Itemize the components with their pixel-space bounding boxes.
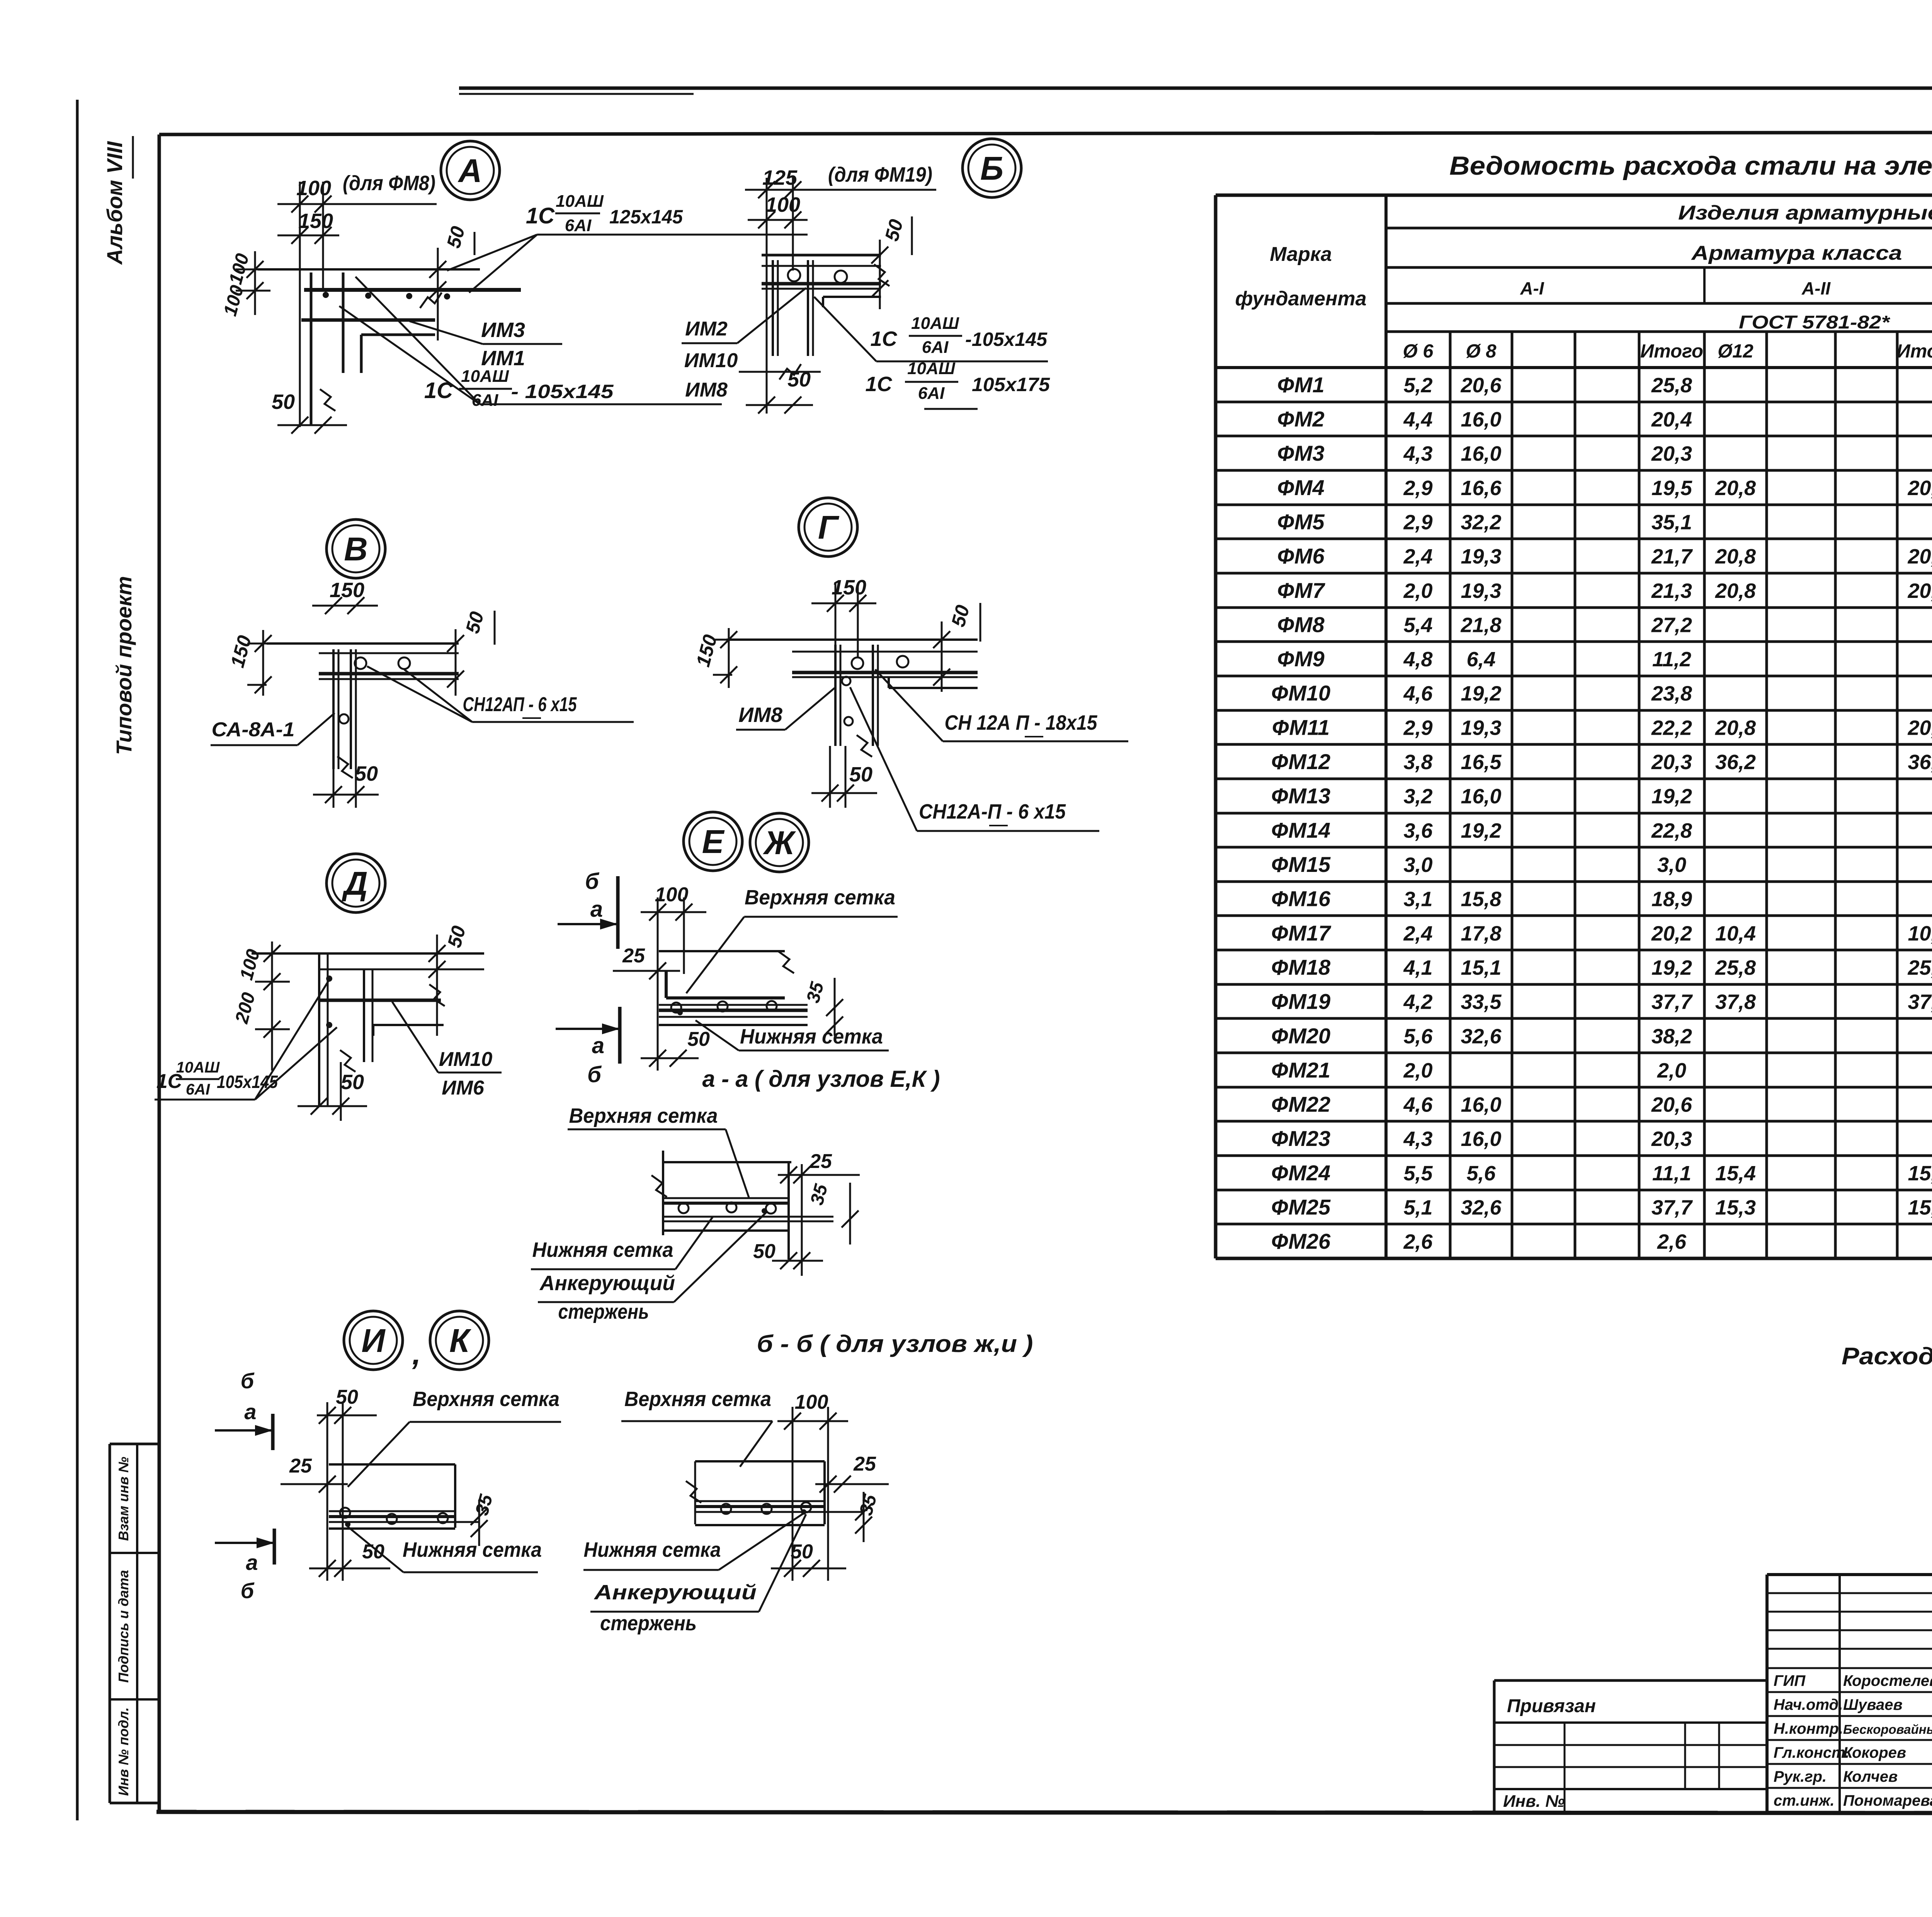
svg-text:32,2: 32,2 <box>1461 511 1501 534</box>
sheet outer top line <box>459 87 1932 90</box>
svg-text:25,8: 25,8 <box>1651 374 1692 397</box>
svg-text:15,3: 15,3 <box>1715 1196 1756 1219</box>
svg-text:ФМ20: ФМ20 <box>1271 1023 1330 1048</box>
svg-text:ИМ8: ИМ8 <box>685 379 728 401</box>
detail marker D <box>327 854 385 913</box>
svg-text:10,4: 10,4 <box>1908 922 1932 945</box>
detail markers I and K <box>344 1311 403 1370</box>
svg-text:ГОСТ 5781-82*: ГОСТ 5781-82* <box>1739 312 1891 333</box>
detail D wall lines <box>318 953 320 1106</box>
svg-text:ИМ10: ИМ10 <box>439 1048 493 1071</box>
detail G wall lines <box>834 645 837 746</box>
svg-text:5,6: 5,6 <box>1466 1162 1496 1185</box>
sheet outer left edge line <box>76 100 79 1820</box>
svg-text:ФМ18: ФМ18 <box>1271 955 1331 979</box>
svg-text:100: 100 <box>765 193 800 216</box>
svg-text:а: а <box>590 897 603 922</box>
svg-text:Марка: Марка <box>1270 243 1332 266</box>
svg-text:4,8: 4,8 <box>1403 648 1432 671</box>
svg-text:10АШ: 10АШ <box>911 314 959 333</box>
svg-text:19,3: 19,3 <box>1461 716 1501 739</box>
svg-text:20,8: 20,8 <box>1715 477 1756 500</box>
svg-text:4,6: 4,6 <box>1403 682 1433 705</box>
svg-text:Верхняя сетка: Верхняя сетка <box>569 1104 718 1127</box>
svg-text:20,2: 20,2 <box>1651 922 1692 945</box>
svg-text:18,9: 18,9 <box>1651 888 1692 911</box>
detail B extension lines <box>766 178 768 414</box>
svg-text:Ж: Ж <box>763 825 796 861</box>
detail A right dim 50 <box>437 248 439 340</box>
svg-text:Арматура класса: Арматура класса <box>1690 242 1902 264</box>
svg-text:ФМ9: ФМ9 <box>1277 647 1324 671</box>
svg-text:50: 50 <box>687 1028 710 1050</box>
svg-text:10АШ: 10АШ <box>176 1059 220 1076</box>
svg-text:Взам инв №: Взам инв № <box>116 1457 131 1541</box>
svg-text:ФМ1: ФМ1 <box>1277 373 1324 397</box>
svg-text:4,4: 4,4 <box>1403 408 1432 431</box>
svg-text:И: И <box>361 1323 386 1359</box>
svg-text:ФМ25: ФМ25 <box>1271 1195 1331 1219</box>
svg-text:25: 25 <box>853 1453 876 1475</box>
svg-text:32,6: 32,6 <box>1461 1196 1502 1219</box>
svg-text:4,2: 4,2 <box>1403 991 1432 1014</box>
svg-text:ФМ15: ФМ15 <box>1271 852 1331 877</box>
detail V slab lines <box>267 642 459 645</box>
svg-text:20,4: 20,4 <box>1651 408 1692 431</box>
svg-text:10,4: 10,4 <box>1715 922 1756 945</box>
drawing frame border <box>158 134 161 1812</box>
section b-b2 slab <box>695 1460 825 1462</box>
svg-text:6АI: 6АI <box>922 338 949 357</box>
svg-text:ИМ1: ИМ1 <box>481 347 525 370</box>
detail A wall lines <box>310 272 313 425</box>
svg-text:Нижняя сетка: Нижняя сетка <box>403 1538 542 1561</box>
detail A slab lines <box>258 268 480 271</box>
svg-text:16,5: 16,5 <box>1461 751 1502 774</box>
svg-text:3,1: 3,1 <box>1403 888 1432 911</box>
svg-text:фундамента: фундамента <box>1235 288 1367 310</box>
svg-text:37,8: 37,8 <box>1715 991 1756 1014</box>
svg-text:Изделия арматурные: Изделия арматурные <box>1678 202 1932 224</box>
steel consumption table grid <box>1216 194 1932 197</box>
svg-text:20,6: 20,6 <box>1651 1093 1692 1117</box>
svg-text:20,3: 20,3 <box>1651 751 1692 774</box>
svg-text:СА-8А-1: СА-8А-1 <box>212 718 295 741</box>
svg-text:15,3: 15,3 <box>1908 1196 1932 1219</box>
svg-text:1С: 1С <box>870 327 897 351</box>
svg-text:50: 50 <box>362 1541 384 1563</box>
left stamp column boxes <box>109 1444 111 1803</box>
detail G slab lines <box>726 638 978 641</box>
svg-text:37,8: 37,8 <box>1908 991 1932 1014</box>
svg-text:Нижняя сетка: Нижняя сетка <box>532 1238 673 1262</box>
svg-text:21,3: 21,3 <box>1651 579 1692 603</box>
svg-text:ФМ7: ФМ7 <box>1277 578 1325 603</box>
detail D right dim 50 <box>436 935 438 1036</box>
svg-text:ИМ3: ИМ3 <box>481 318 525 342</box>
svg-text:3,0: 3,0 <box>1403 853 1432 877</box>
svg-text:ФМ16: ФМ16 <box>1271 887 1331 911</box>
svg-text:3,2: 3,2 <box>1403 785 1432 808</box>
svg-text:СН 12А П - 18х15: СН 12А П - 18х15 <box>945 711 1098 734</box>
svg-text:1С: 1С <box>865 373 892 396</box>
detail B slab lines <box>762 254 881 257</box>
svg-text:19,2: 19,2 <box>1461 819 1501 842</box>
svg-text:ФМ10: ФМ10 <box>1271 681 1330 705</box>
svg-text:105х145: 105х145 <box>217 1072 278 1092</box>
svg-text:19,5: 19,5 <box>1651 477 1692 500</box>
svg-text:16,0: 16,0 <box>1461 1127 1501 1151</box>
svg-text:ФМ14: ФМ14 <box>1271 818 1330 842</box>
svg-text:5,1: 5,1 <box>1403 1196 1432 1219</box>
svg-text:20,8: 20,8 <box>1907 579 1932 603</box>
detail marker V <box>327 519 385 578</box>
svg-text:37,7: 37,7 <box>1651 991 1693 1014</box>
svg-text:20,8: 20,8 <box>1907 477 1932 500</box>
detail V wall lines <box>332 649 335 769</box>
svg-text:А: А <box>457 153 482 189</box>
svg-text:27,2: 27,2 <box>1651 613 1692 637</box>
svg-text:5,4: 5,4 <box>1403 613 1432 637</box>
svg-text:Нижняя сетка: Нижняя сетка <box>740 1025 883 1048</box>
svg-text:Кокорев: Кокорев <box>1843 1744 1906 1761</box>
svg-text:Колчев: Колчев <box>1843 1768 1898 1785</box>
svg-text:2,6: 2,6 <box>1657 1230 1687 1253</box>
svg-text:(для ФМ8): (для ФМ8) <box>343 172 435 195</box>
detail B step <box>823 296 881 298</box>
svg-text:(для ФМ19): (для ФМ19) <box>828 163 932 186</box>
svg-text:1С: 1С <box>526 203 555 228</box>
svg-text:ФМ2: ФМ2 <box>1277 407 1324 431</box>
svg-text:10АШ: 10АШ <box>907 359 956 378</box>
svg-text:б: б <box>241 1578 255 1603</box>
svg-text:2,6: 2,6 <box>1403 1230 1433 1253</box>
svg-text:23,8: 23,8 <box>1651 682 1692 705</box>
svg-text:Рук.гр.: Рук.гр. <box>1774 1768 1827 1785</box>
svg-text:2,9: 2,9 <box>1403 716 1432 739</box>
svg-text:21,7: 21,7 <box>1651 545 1693 568</box>
svg-text:16,0: 16,0 <box>1461 785 1501 808</box>
svg-text:36,2: 36,2 <box>1908 751 1932 774</box>
svg-text:Гл.конст.: Гл.конст. <box>1774 1744 1849 1761</box>
svg-text:20,3: 20,3 <box>1651 1127 1692 1151</box>
svg-text:2,0: 2,0 <box>1403 1059 1432 1082</box>
svg-text:Ø 6: Ø 6 <box>1403 341 1434 362</box>
svg-text:2,4: 2,4 <box>1403 922 1432 945</box>
svg-text:50: 50 <box>341 1071 364 1094</box>
svg-text:2,0: 2,0 <box>1403 579 1432 603</box>
svg-text:19,2: 19,2 <box>1651 956 1692 979</box>
svg-text:20,8: 20,8 <box>1715 716 1756 739</box>
svg-text:21,8: 21,8 <box>1460 613 1501 637</box>
svg-text:125х145: 125х145 <box>609 206 683 228</box>
svg-text:2,9: 2,9 <box>1403 511 1432 534</box>
svg-text:стержень: стержень <box>600 1612 697 1635</box>
svg-text:б: б <box>585 869 600 894</box>
svg-text:11,1: 11,1 <box>1652 1162 1691 1185</box>
svg-text:33,5: 33,5 <box>1461 991 1502 1014</box>
section a-a slab <box>659 950 785 952</box>
detail marker Zh <box>750 813 809 872</box>
svg-text:Нач.отд.: Нач.отд. <box>1774 1696 1843 1713</box>
svg-text:3,6: 3,6 <box>1403 819 1433 842</box>
svg-text:Е: Е <box>702 824 725 860</box>
svg-text:ИМ10: ИМ10 <box>684 349 738 372</box>
section b-b slab <box>662 1151 664 1235</box>
svg-text:Шуваев: Шуваев <box>1843 1696 1903 1713</box>
svg-text:Привязан: Привязан <box>1507 1696 1596 1716</box>
svg-text:ФМ13: ФМ13 <box>1271 784 1330 808</box>
detail A extension lines <box>299 182 301 427</box>
svg-text:20,8: 20,8 <box>1907 545 1932 568</box>
svg-text:25: 25 <box>289 1455 312 1477</box>
svg-text:ФМ24: ФМ24 <box>1271 1161 1330 1185</box>
svg-text:19,3: 19,3 <box>1461 545 1501 568</box>
svg-text:4,3: 4,3 <box>1403 1127 1432 1151</box>
svg-text:СН12А-П - 6 х15: СН12А-П - 6 х15 <box>919 800 1066 823</box>
svg-text:6АI: 6АI <box>565 216 592 235</box>
svg-text:б: б <box>587 1062 602 1087</box>
svg-text:20,8: 20,8 <box>1715 579 1756 603</box>
svg-text:36,2: 36,2 <box>1715 751 1756 774</box>
svg-text:5,6: 5,6 <box>1403 1025 1433 1048</box>
svg-text:ст.инж.: ст.инж. <box>1774 1792 1835 1809</box>
svg-text:50: 50 <box>849 763 872 786</box>
svg-text:16,6: 16,6 <box>1461 477 1502 500</box>
svg-text:Инв № подл.: Инв № подл. <box>116 1707 131 1796</box>
svg-text:СН12АП - 6 х15: СН12АП - 6 х15 <box>463 693 577 716</box>
svg-text:25: 25 <box>809 1150 832 1173</box>
detail marker G <box>799 498 857 557</box>
detail marker E <box>684 812 742 871</box>
detail A step lines <box>361 334 435 336</box>
svg-text:2,0: 2,0 <box>1657 1059 1686 1082</box>
svg-text:100: 100 <box>795 1391 828 1413</box>
svg-text:Анкерующий: Анкерующий <box>594 1581 757 1604</box>
svg-text:20,8: 20,8 <box>1715 545 1756 568</box>
detail V right dim 50 <box>455 629 457 696</box>
svg-text:- 105х145: - 105х145 <box>511 381 614 402</box>
svg-text:100: 100 <box>296 177 331 200</box>
svg-text:5,5: 5,5 <box>1403 1162 1433 1185</box>
svg-text:25,8: 25,8 <box>1715 956 1756 979</box>
svg-text:ФМ17: ФМ17 <box>1271 921 1332 945</box>
svg-text:16,0: 16,0 <box>1461 1093 1501 1117</box>
svg-text:4,6: 4,6 <box>1403 1093 1433 1117</box>
privyazan table <box>1494 1679 1767 1682</box>
svg-text:Г: Г <box>818 509 840 546</box>
svg-text:а: а <box>592 1033 604 1058</box>
svg-text:50: 50 <box>787 368 811 391</box>
svg-text:Верхняя сетка: Верхняя сетка <box>624 1388 771 1411</box>
detail marker B <box>963 139 1021 197</box>
svg-text:10АШ: 10АШ <box>556 192 604 211</box>
svg-text:ИМ8: ИМ8 <box>738 703 782 727</box>
svg-text:Ведомость расхода стали: Ведомость расхода стали на элемент , кг <box>1449 151 1932 180</box>
svg-text:25: 25 <box>622 945 645 967</box>
svg-text:50: 50 <box>355 762 378 785</box>
svg-text:К: К <box>449 1323 472 1359</box>
svg-text:105х175: 105х175 <box>972 374 1050 395</box>
svg-text:15,4: 15,4 <box>1908 1162 1932 1185</box>
svg-text:4,3: 4,3 <box>1403 442 1432 465</box>
svg-text:38,2: 38,2 <box>1651 1025 1692 1048</box>
svg-text:ФМ6: ФМ6 <box>1277 544 1325 568</box>
svg-text:Анкерующий: Анкерующий <box>539 1272 675 1295</box>
svg-text:16,0: 16,0 <box>1461 408 1501 431</box>
svg-text:Расход Ø 6АI на анкерующ: Расход Ø 6АI на анкерующие стержни - 192… <box>1842 1343 1932 1370</box>
svg-text:Коростелев: Коростелев <box>1843 1672 1932 1689</box>
svg-text:В: В <box>344 531 367 568</box>
svg-text:а: а <box>246 1550 258 1575</box>
svg-text:50: 50 <box>791 1541 813 1563</box>
svg-text:6,4: 6,4 <box>1466 648 1495 671</box>
detail D step <box>373 1024 444 1026</box>
detail D mesh line <box>319 999 441 1002</box>
svg-text:20,8: 20,8 <box>1907 716 1932 739</box>
svg-text:16,0: 16,0 <box>1461 442 1501 465</box>
svg-text:Ø12: Ø12 <box>1718 341 1753 362</box>
svg-text:ФМ19: ФМ19 <box>1271 989 1330 1014</box>
svg-text:22,8: 22,8 <box>1651 819 1692 842</box>
svg-text:А-II: А-II <box>1801 278 1831 298</box>
svg-text:5,2: 5,2 <box>1403 374 1432 397</box>
svg-text:3,0: 3,0 <box>1657 853 1686 877</box>
svg-text:6АI: 6АI <box>918 384 945 403</box>
svg-text:35,1: 35,1 <box>1651 511 1692 534</box>
svg-text:а: а <box>244 1399 256 1424</box>
detail D slab lines <box>252 952 484 955</box>
svg-text:ФМ26: ФМ26 <box>1271 1229 1331 1253</box>
svg-text:4,1: 4,1 <box>1403 956 1432 979</box>
svg-text:ФМ22: ФМ22 <box>1271 1092 1330 1117</box>
svg-text:Пономарева: Пономарева <box>1843 1792 1932 1809</box>
svg-text:25,8: 25,8 <box>1907 956 1932 979</box>
svg-text:22,2: 22,2 <box>1651 716 1692 739</box>
svg-text:Инв. №: Инв. № <box>1503 1792 1565 1811</box>
svg-text:а - а ( для узлов Е,К ): а - а ( для узлов Е,К ) <box>702 1066 940 1092</box>
svg-text:19,3: 19,3 <box>1461 579 1501 603</box>
svg-text:Верхняя сетка: Верхняя сетка <box>745 886 895 909</box>
svg-text:32,6: 32,6 <box>1461 1025 1502 1048</box>
svg-text:2,9: 2,9 <box>1403 477 1432 500</box>
svg-text:Б: Б <box>980 150 1003 187</box>
svg-text:15,1: 15,1 <box>1461 956 1501 979</box>
svg-text:-105х145: -105х145 <box>965 329 1048 350</box>
svg-text:50: 50 <box>272 390 295 414</box>
svg-text:11,2: 11,2 <box>1652 648 1691 671</box>
svg-text:ФМ12: ФМ12 <box>1271 749 1330 774</box>
svg-text:150: 150 <box>330 579 364 602</box>
svg-text:19,2: 19,2 <box>1461 682 1501 705</box>
svg-text:б - б ( для узлов ж,и ): б - б ( для узлов ж,и ) <box>757 1331 1033 1357</box>
svg-text:2,4: 2,4 <box>1403 545 1432 568</box>
detail A lower mesh line <box>301 318 435 322</box>
svg-text:Типовой проект: Типовой проект <box>112 576 136 755</box>
title block signature table <box>1767 1573 1932 1576</box>
svg-text:17,8: 17,8 <box>1461 922 1501 945</box>
svg-text:20,3: 20,3 <box>1651 442 1692 465</box>
svg-text:А-I: А-I <box>1520 278 1544 298</box>
svg-text:ФМ23: ФМ23 <box>1271 1126 1330 1151</box>
svg-text:Альбом VIII: Альбом VIII <box>102 141 127 265</box>
svg-text:Итого: Итого <box>1640 341 1703 362</box>
svg-text:ФМ4: ФМ4 <box>1277 475 1324 500</box>
svg-text:ФМ3: ФМ3 <box>1277 441 1324 465</box>
svg-text:37,7: 37,7 <box>1651 1196 1693 1219</box>
svg-text:150: 150 <box>832 576 866 599</box>
svg-text:Д: Д <box>341 865 367 902</box>
svg-text:стержень: стержень <box>558 1300 649 1323</box>
svg-text:15,8: 15,8 <box>1461 888 1501 911</box>
detail B right dim 50 <box>879 240 881 309</box>
svg-text:10АШ: 10АШ <box>461 367 509 386</box>
detail G right dim 50 <box>941 621 943 692</box>
svg-text:ГИП: ГИП <box>1774 1672 1806 1689</box>
svg-text:ФМ5: ФМ5 <box>1277 509 1325 534</box>
detail G step <box>889 687 978 689</box>
svg-text:20,6: 20,6 <box>1460 374 1502 397</box>
svg-text:ФМ11: ФМ11 <box>1272 715 1330 739</box>
svg-text:19,2: 19,2 <box>1651 785 1692 808</box>
svg-text:,: , <box>412 1336 421 1371</box>
svg-text:50: 50 <box>753 1240 776 1263</box>
svg-text:50: 50 <box>336 1386 358 1408</box>
svg-text:ФМ21: ФМ21 <box>1271 1058 1330 1082</box>
svg-text:3,8: 3,8 <box>1403 751 1432 774</box>
svg-text:ИМ2: ИМ2 <box>685 318 728 340</box>
svg-text:Бескоровайный: Бескоровайный <box>1843 1722 1932 1737</box>
svg-text:Ø 8: Ø 8 <box>1466 341 1497 362</box>
svg-text:Итого: Итого <box>1897 341 1932 362</box>
svg-text:Верхняя сетка: Верхняя сетка <box>413 1388 560 1411</box>
svg-text:ФМ8: ФМ8 <box>1277 612 1325 637</box>
svg-text:ИМ6: ИМ6 <box>442 1077 485 1099</box>
svg-text:15,4: 15,4 <box>1715 1162 1756 1185</box>
svg-text:Подпись и дата: Подпись и дата <box>116 1570 131 1683</box>
svg-text:Н.контр.: Н.контр. <box>1774 1720 1843 1737</box>
svg-text:б: б <box>241 1369 255 1393</box>
detail marker A <box>441 141 500 200</box>
detail B wall lines <box>772 260 774 356</box>
svg-text:6АI: 6АI <box>186 1081 210 1098</box>
svg-text:Нижняя сетка: Нижняя сетка <box>584 1538 721 1561</box>
detail IK slab <box>329 1463 455 1466</box>
